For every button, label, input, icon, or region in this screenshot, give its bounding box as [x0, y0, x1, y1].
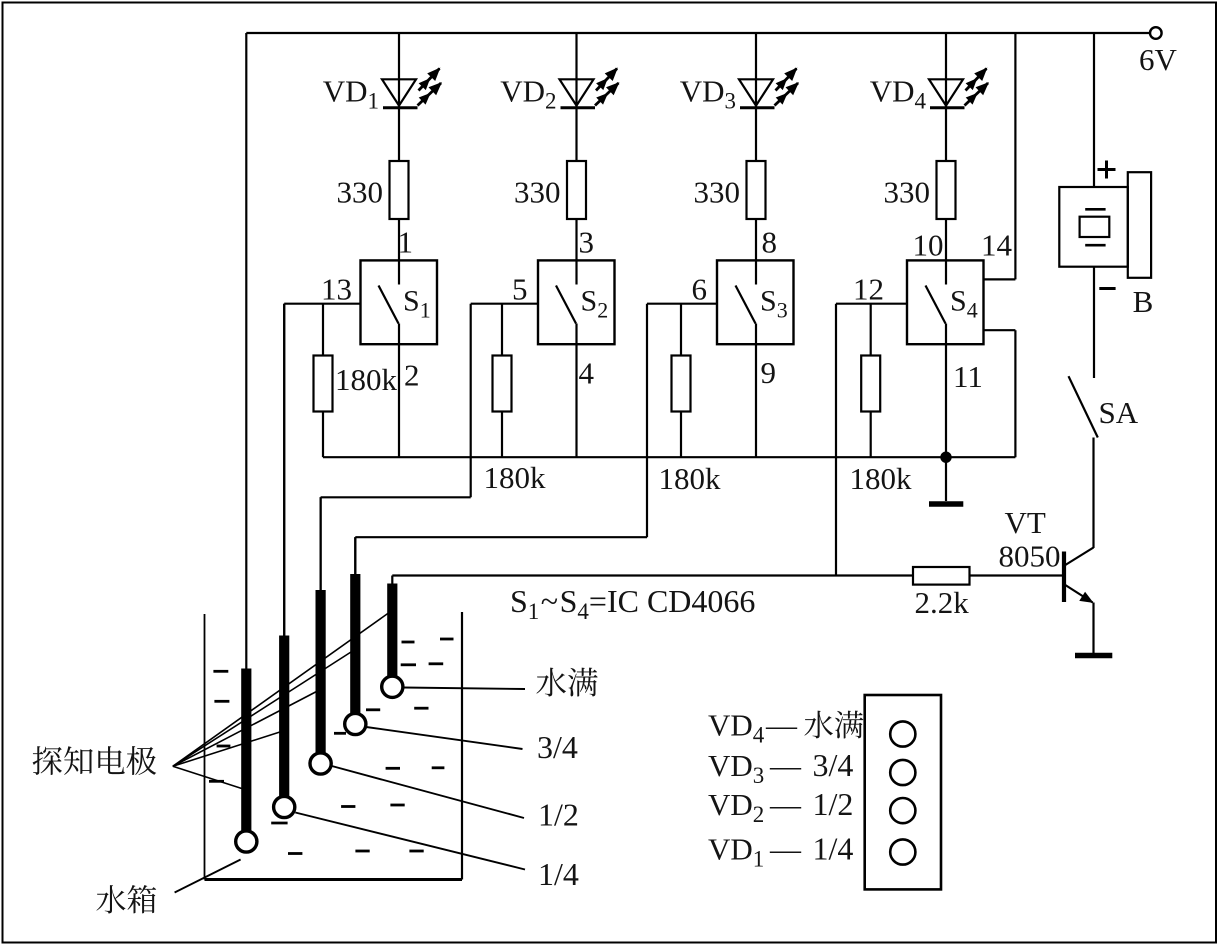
wire VD1 cathode to resistor [398, 109, 400, 162]
label VD3 [680, 74, 736, 114]
wire S1 pin 13 down to electrode 2 [283, 304, 285, 636]
wire VD3 cathode to resistor [755, 109, 757, 162]
svg-text:1: 1 [398, 225, 414, 260]
wire S2 pin 5 staircase to electrode 3 [321, 304, 471, 590]
label 8050 [999, 539, 1061, 574]
label full level [536, 668, 597, 697]
legend row VD1 1/4 [708, 831, 853, 872]
label VT [1005, 505, 1046, 540]
resistor 330 #1 [390, 161, 409, 219]
LED VD1 [382, 69, 441, 108]
svg-text:180k: 180k [850, 461, 913, 496]
svg-text:8050: 8050 [999, 539, 1061, 574]
svg-text:1/4: 1/4 [813, 831, 854, 867]
label VD2 [500, 74, 556, 114]
svg-text:VD3: VD3 [680, 74, 736, 114]
wire VD3 anode from supply rail [755, 33, 757, 108]
svg-text:1/4: 1/4 [538, 856, 579, 892]
resistor 330 #4 [937, 161, 956, 219]
wire resistor to switch S1 pin 1 [398, 219, 400, 260]
pin label 6 [692, 272, 708, 307]
pin label 4 [579, 356, 595, 391]
label VD1 [323, 74, 379, 114]
wire battery - to switch SA [1093, 267, 1095, 378]
pin label 14 [981, 228, 1013, 263]
pin label 1 [398, 225, 414, 260]
svg-text:VT: VT [1005, 505, 1046, 540]
wire S4 lower right pin to lower rail [984, 330, 1015, 457]
svg-text:6V: 6V [1139, 42, 1178, 77]
wire VD2 anode from supply rail [575, 33, 577, 108]
plus sign [1098, 161, 1116, 179]
wire 2.2k to transistor base [970, 574, 1065, 576]
wire resistor to switch S4 pin 10 [945, 219, 947, 260]
electrode 2 lead wire [283, 304, 285, 636]
resistor 180k #2 [493, 304, 512, 458]
svg-text:3/4: 3/4 [537, 729, 578, 765]
pointer line full level [403, 688, 525, 690]
minus sign [1099, 287, 1115, 290]
svg-text:330: 330 [884, 175, 931, 210]
wire emitter to ground [1092, 603, 1094, 654]
wire VD2 cathode to resistor [575, 109, 577, 162]
svg-text:180k: 180k [335, 362, 398, 397]
wire VD1 anode from supply rail [398, 33, 400, 108]
switch S4 contacts and blade [926, 260, 947, 344]
water surface dashes [209, 639, 454, 854]
resistor 330 #3 [747, 161, 766, 219]
wire S3 pin 6 horizontal [647, 303, 717, 305]
pin label 8 [762, 225, 778, 260]
wire S2 pin 4 to lower rail [575, 344, 577, 457]
label SA [1099, 395, 1139, 430]
switch SA blade [1069, 376, 1098, 437]
pin label 2 [404, 358, 420, 393]
wire S4 pin 12 horizontal [836, 303, 907, 305]
svg-text:180k: 180k [484, 460, 547, 495]
pointer line 3/4 [366, 727, 522, 749]
electrode 4 lead wire [354, 537, 356, 574]
wire resistor to switch S3 pin 8 [755, 219, 757, 260]
switch box S2 [538, 260, 615, 344]
wire SA to transistor collector [1092, 438, 1094, 549]
wire VD4 cathode to resistor [945, 109, 947, 162]
svg-text:6: 6 [692, 272, 708, 307]
legend lamp circle 1 [890, 839, 915, 864]
resistor 180k #3 [672, 304, 691, 458]
electrode 5 probe [382, 584, 403, 698]
legend lamp circle 4 [890, 721, 915, 746]
ground below S4 [929, 457, 963, 504]
wire S4 pin 12 down to sense line [835, 304, 837, 576]
electrode 1 lead wire [245, 33, 247, 669]
svg-text:330: 330 [337, 175, 384, 210]
pin label 3 [579, 225, 595, 260]
wire supply rail to battery + [1093, 33, 1095, 187]
label 330 #4 [884, 175, 931, 210]
battery B holder [1059, 172, 1151, 278]
wire S3 pin 6 staircase to electrode 4 [355, 304, 647, 574]
svg-text:VD1: VD1 [323, 74, 379, 114]
label 2.2k [915, 585, 970, 620]
svg-text:10: 10 [913, 228, 944, 263]
switch S1 contacts and blade [379, 260, 400, 344]
wire S4 pin 14 to supply rail [984, 33, 1015, 279]
ground below transistor [1075, 653, 1112, 659]
wire S4 pin 11 to lower rail [945, 344, 947, 457]
wire resistor to switch S2 pin 3 [575, 219, 577, 260]
electrode 3 lead wire [320, 497, 322, 590]
label S2 [581, 285, 609, 323]
resistor 180k #1 [314, 304, 333, 458]
transistor VT 8050 [1064, 548, 1094, 603]
label 180k #4 [850, 461, 913, 496]
svg-text:VD2: VD2 [500, 74, 556, 114]
electrode 3 probe [310, 590, 331, 774]
LED VD4 [929, 69, 988, 108]
svg-text:—: — [765, 708, 798, 743]
svg-text:S2: S2 [581, 285, 609, 323]
svg-text:B: B [1133, 284, 1154, 319]
label VD4 [870, 74, 927, 114]
water tank walls [205, 612, 463, 880]
wire S2 pin 5 horizontal [471, 303, 538, 305]
svg-text:3: 3 [579, 225, 595, 260]
label 3/4 [537, 729, 578, 765]
svg-text:11: 11 [953, 359, 983, 394]
resistor 330 #2 [567, 161, 586, 219]
svg-text:VD3: VD3 [708, 748, 764, 788]
label S1~S4=IC CD4066 [510, 583, 755, 624]
label 330 #2 [514, 175, 561, 210]
label 180k #3 [659, 461, 722, 496]
terminal 6V [1139, 27, 1178, 77]
svg-text:SA: SA [1099, 395, 1139, 430]
svg-text:330: 330 [514, 175, 561, 210]
label water tank [96, 885, 156, 913]
label 1/4 [538, 856, 579, 892]
electrode 1 probe [236, 669, 257, 853]
wire S1 pin 2 to lower rail [398, 344, 400, 457]
LED VD2 [560, 69, 619, 108]
svg-text:14: 14 [981, 228, 1013, 263]
switch box S3 [717, 260, 794, 344]
switch box S1 [361, 260, 438, 344]
svg-text:VD1: VD1 [708, 832, 764, 872]
svg-text:—: — [769, 748, 802, 783]
label S3 [760, 285, 788, 323]
resistor 2.2k [913, 567, 970, 585]
svg-text:1/2: 1/2 [813, 786, 854, 822]
label 180k #2 [484, 460, 547, 495]
wire sense line electrode 5 to 2.2k [392, 574, 913, 576]
label B [1133, 284, 1154, 319]
pointer line 1/4 [295, 813, 525, 870]
legend lamp circle 2 [890, 798, 915, 823]
wire top +6V supply rail [246, 32, 1149, 34]
svg-text:2: 2 [404, 358, 420, 393]
svg-text:—: — [769, 832, 802, 867]
switch S2 contacts and blade [556, 260, 577, 344]
pin label 12 [853, 272, 884, 307]
label 330 #1 [337, 175, 384, 210]
label detection electrodes [33, 746, 157, 775]
svg-text:4: 4 [579, 356, 595, 391]
resistor 180k #4 [861, 304, 880, 458]
svg-text:330: 330 [694, 175, 741, 210]
svg-text:180k: 180k [659, 461, 722, 496]
svg-text:VD4: VD4 [708, 708, 765, 748]
pointer line water tank [175, 860, 241, 893]
pin label 11 [953, 359, 983, 394]
svg-text:1/2: 1/2 [538, 797, 579, 833]
svg-text:8: 8 [762, 225, 778, 260]
label 180k #1 [335, 362, 398, 397]
svg-text:S1: S1 [403, 285, 431, 323]
wire lower common rail [323, 456, 1015, 458]
svg-text:S1~S4=IC CD4066: S1~S4=IC CD4066 [510, 583, 755, 624]
electrode 2 probe [274, 636, 295, 818]
legend row VD2 1/2 [708, 786, 853, 827]
svg-text:VD2: VD2 [708, 787, 764, 827]
wire VD4 anode from supply rail [945, 33, 947, 108]
pin label 10 [913, 228, 944, 263]
wire S3 pin 9 to lower rail [755, 344, 757, 457]
svg-text:VD4: VD4 [870, 74, 927, 114]
svg-text:2.2k: 2.2k [915, 585, 970, 620]
svg-text:12: 12 [853, 272, 884, 307]
legend row VD3 3/4 [708, 747, 853, 788]
svg-text:S4: S4 [950, 285, 978, 323]
pin label 9 [761, 355, 777, 390]
switch box S4 [907, 260, 984, 344]
label 1/2 [538, 797, 579, 833]
fan lines to electrodes [173, 613, 389, 791]
legend box [865, 695, 941, 889]
wire S1 pin 13 horizontal [284, 303, 360, 305]
svg-text:13: 13 [321, 272, 352, 307]
switch S3 contacts and blade [736, 260, 757, 344]
svg-text:5: 5 [512, 272, 528, 307]
electrode 5 lead wire [391, 576, 393, 584]
label S4 [950, 285, 978, 323]
svg-text:3/4: 3/4 [813, 747, 854, 783]
pin label 13 [321, 272, 352, 307]
svg-text:9: 9 [761, 355, 777, 390]
pointer line 1/2 [332, 766, 524, 818]
label S1 [403, 285, 431, 323]
legend row VD4 full [708, 708, 863, 748]
LED VD3 [739, 69, 798, 108]
pin label 5 [512, 272, 528, 307]
electrode 4 probe [345, 574, 366, 735]
legend lamp circle 3 [890, 760, 915, 785]
svg-text:—: — [769, 787, 802, 822]
junction dot [941, 452, 951, 462]
svg-text:S3: S3 [760, 285, 788, 323]
label 330 #3 [694, 175, 741, 210]
